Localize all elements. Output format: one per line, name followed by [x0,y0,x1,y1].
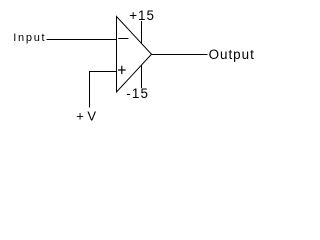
wire: +15 positive supply stub [141,21,143,44]
svg-text:+15: +15 [129,8,155,23]
wire: +V vertical riser [89,72,91,108]
svg-text:Output: Output [209,47,255,62]
op-amp U1 triangle body [117,17,152,93]
wire: -15 negative supply stub [141,65,143,88]
svg-text:+ V: + V [76,109,96,124]
svg-text:Input: Input [13,32,46,44]
non-inverting input plus symbol [118,69,126,71]
inverting input minus symbol [118,38,128,40]
wire: Input to inverting input [47,39,117,41]
svg-text:-15: -15 [126,86,149,101]
wire: output from apex [152,54,208,56]
wire: +V horizontal to non-inverting input [89,71,117,73]
